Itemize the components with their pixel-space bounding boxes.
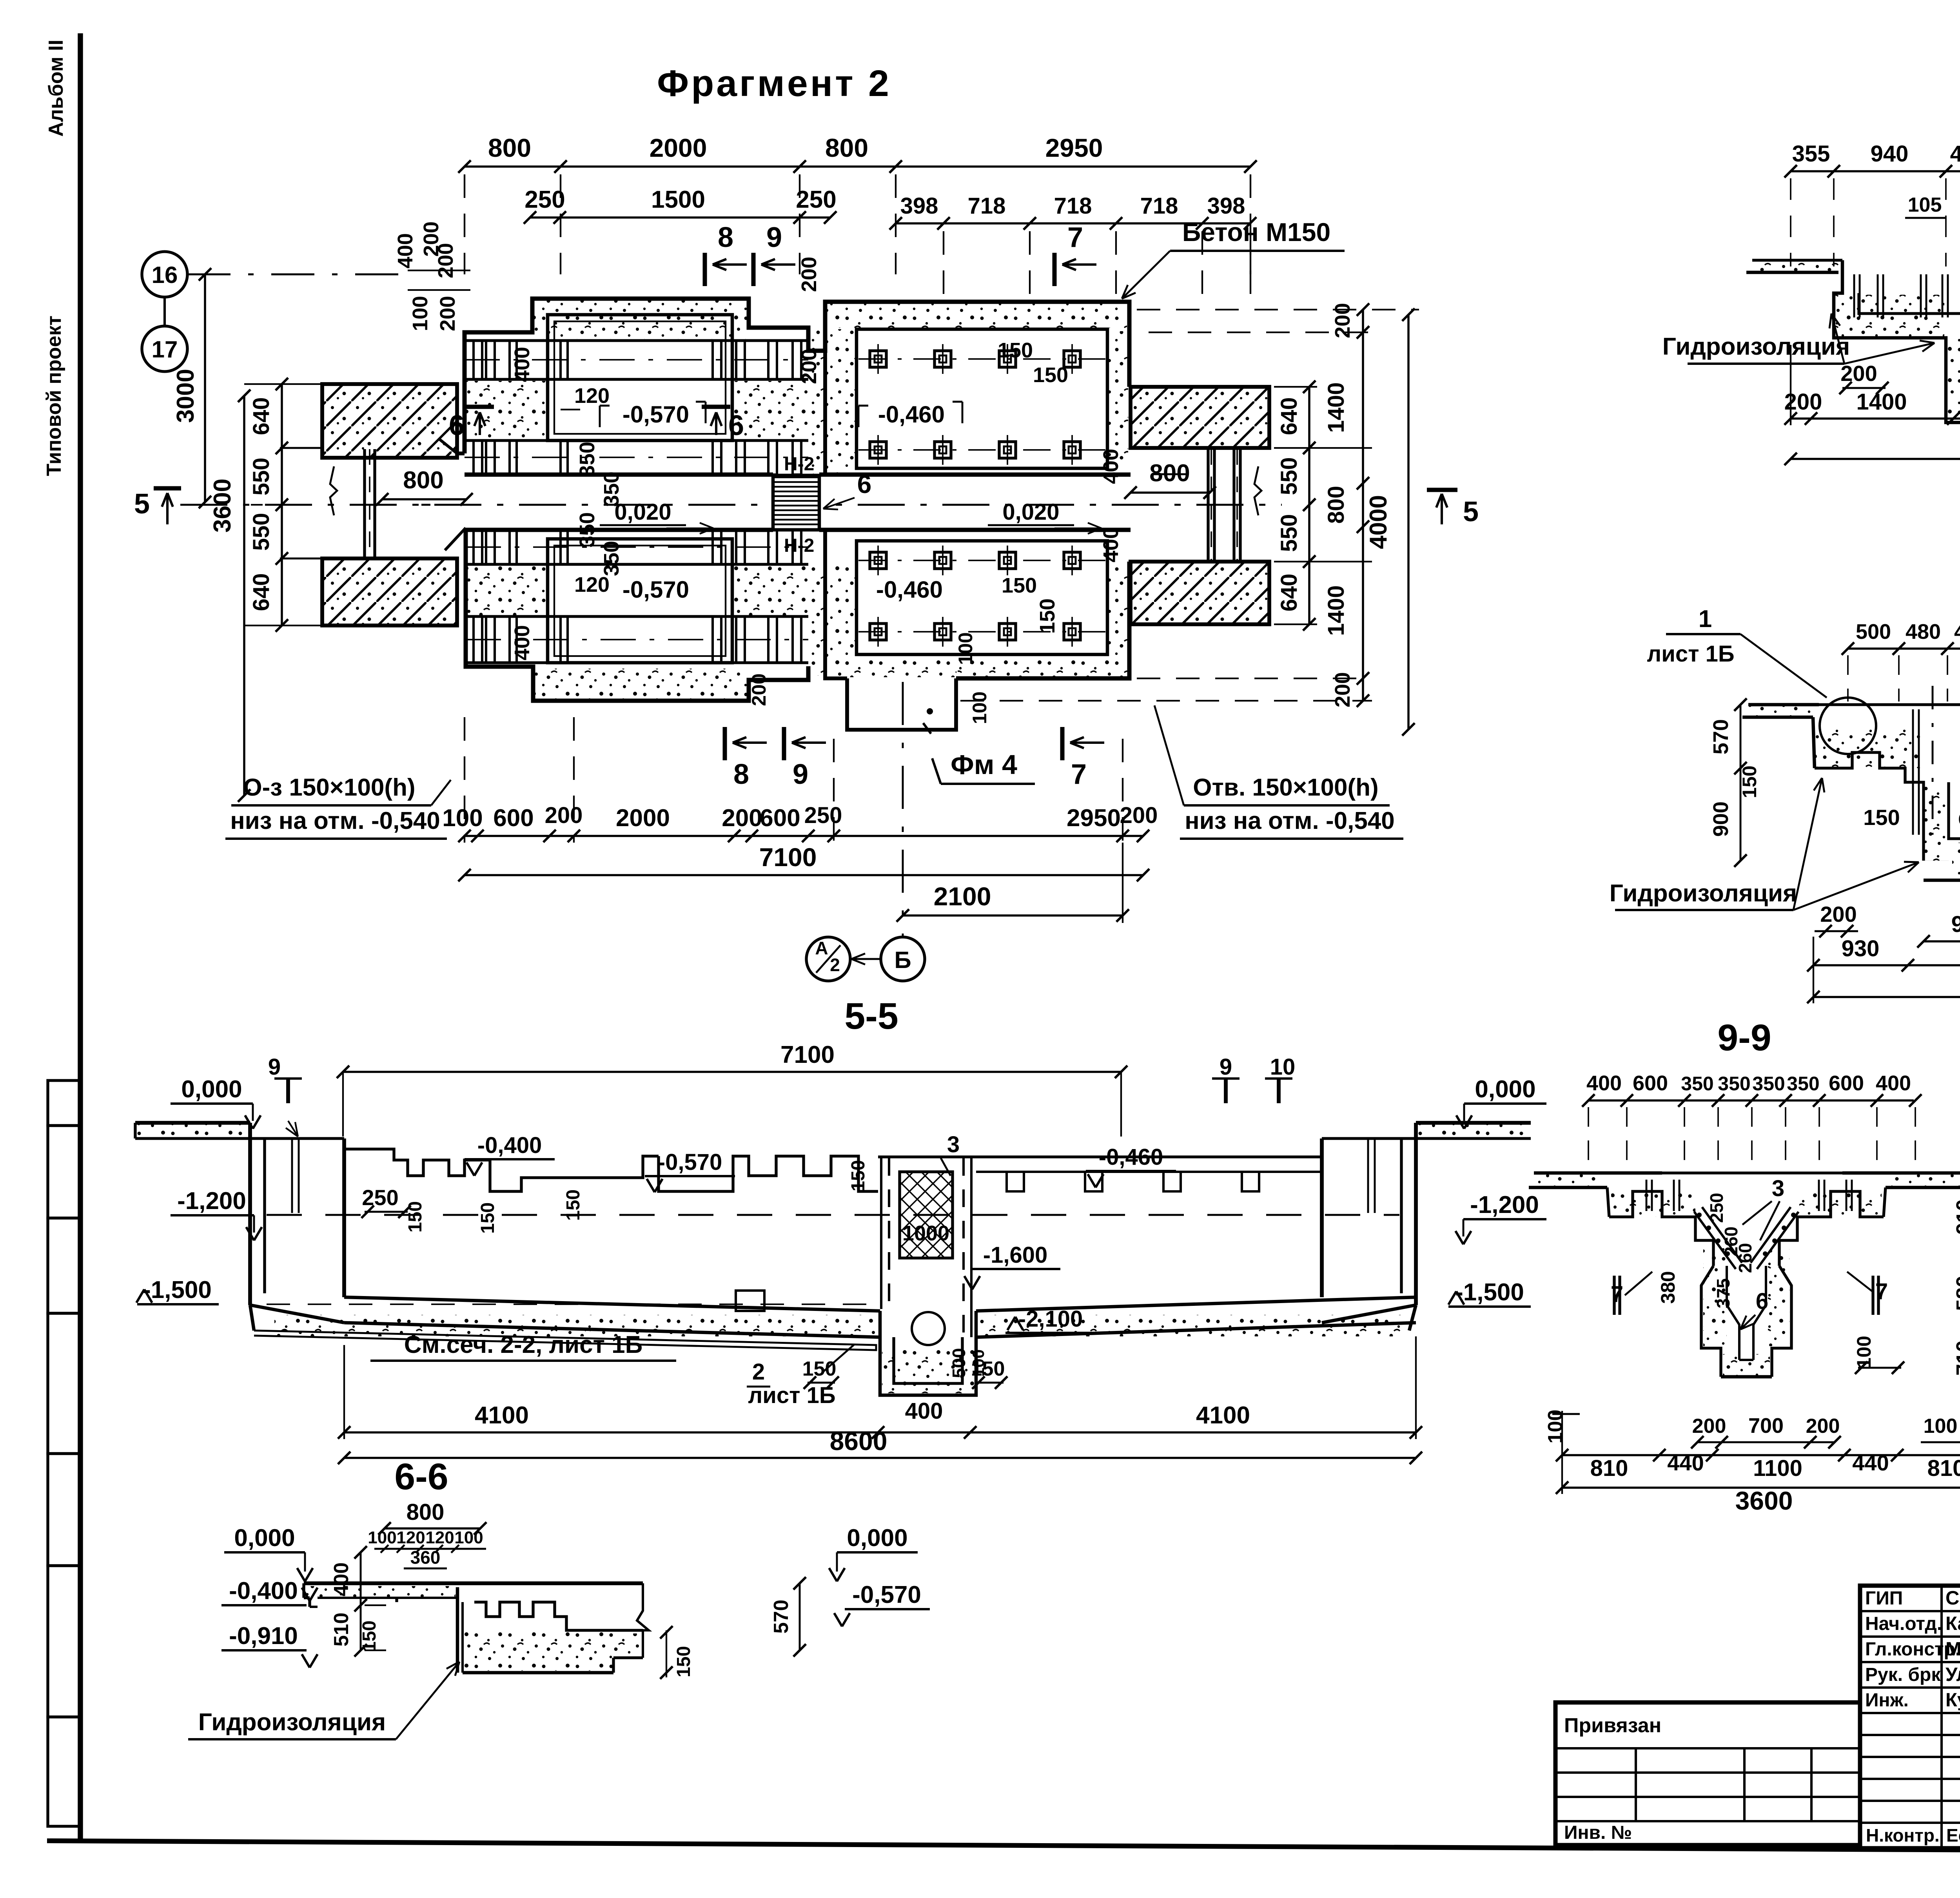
axis dash line from circle 16 [187,274,412,276]
section 6-6: hydro insulation vertical [456,1587,459,1673]
svg-text:550: 550 [249,458,274,496]
section marker 9 bottom [782,727,786,760]
axis circle 17 [142,326,187,372]
plan dim chain right inner: 640 550 550 640 [1308,387,1310,624]
svg-text:17: 17 [152,336,178,363]
svg-text:ГИП: ГИП [1865,1588,1903,1609]
svg-text:400: 400 [510,625,534,660]
section 6-6: right break edge [637,1583,649,1658]
section marker 6 left [465,405,494,409]
svg-text:6-6: 6-6 [394,1456,448,1497]
section 5-5: insulation block 1000 [900,1172,953,1258]
svg-text:100: 100 [454,1528,483,1547]
svg-text:1000: 1000 [902,1222,949,1245]
svg-text:100: 100 [442,805,483,832]
plan: embedded plates lower-right pit row1 [858,560,1105,561]
svg-text:-0,570: -0,570 [622,401,689,428]
section 6-6: bottom slab [463,1671,613,1675]
plan dim: 4000 vertical right [1407,315,1410,729]
svg-text:400: 400 [330,1563,353,1597]
svg-text:550: 550 [249,513,274,551]
plan: corridor east break mark [1254,466,1261,515]
svg-text:3: 3 [947,1132,960,1157]
svg-text:150: 150 [998,339,1033,362]
section 5-5: dim 7100 top [343,1071,1121,1073]
svg-text:900: 900 [1709,801,1733,837]
plan: corridor west break mark [330,466,337,515]
svg-text:200: 200 [436,296,459,331]
plan dim chain left: 640 550 550 640 [281,384,283,625]
svg-text:200: 200 [748,673,770,706]
svg-text:400: 400 [1099,527,1123,562]
svg-text:Привязан: Привязан [1564,1714,1661,1737]
svg-text:100: 100 [969,691,991,724]
svg-text:5: 5 [134,488,150,520]
svg-text:100: 100 [1924,1415,1958,1438]
svg-text:250: 250 [524,186,565,213]
svg-text:400: 400 [1950,141,1960,167]
section marker 8 bottom [723,727,727,760]
svg-text:640: 640 [1276,397,1302,435]
section 9-9: funnel slope rebars [1694,1212,1736,1269]
svg-text:Н.контр.: Н.контр. [1866,1825,1940,1845]
svg-text:250: 250 [362,1185,398,1210]
svg-text:Гидроизоляция: Гидроизоляция [1662,333,1850,360]
svg-text:ф200: ф200 [1958,805,1960,830]
svg-text:0,000: 0,000 [847,1525,907,1552]
section 7-7: top dim chain 355 940 400 400 940 355 [1791,170,1960,172]
section 5-5: dim 8600 [344,1457,1416,1459]
svg-text:150: 150 [1739,765,1760,798]
section 9-9: speckles [1611,1193,1695,1217]
section marker 8 top [703,253,707,286]
plan: lower-right block outer outline [825,666,847,678]
sheet frame: bottom border line [47,1841,1960,1854]
svg-text:105: 105 [1908,194,1942,216]
plan dim chain right outer: 200 1400 800 1400 200 [1362,310,1364,701]
section 9-9: bottom small chain 200 700 200 [1697,1441,1835,1443]
svg-text:4000: 4000 [1365,495,1392,549]
svg-text:7100: 7100 [780,1041,835,1068]
plan: ladder (стремянка Н-2) in corridor [773,475,819,530]
svg-text:8: 8 [733,759,749,790]
section marker 9 top [751,253,756,286]
section 6-6: dim 800 [385,1527,480,1530]
svg-text:7: 7 [1067,222,1083,253]
svg-text:-2,100: -2,100 [1018,1306,1083,1332]
svg-text:120: 120 [425,1528,454,1547]
svg-text:200: 200 [1331,672,1354,707]
section 5-5: left floor slab at 0,000 [135,1121,250,1125]
svg-text:Типовой проект: Типовой проект [43,315,65,476]
svg-text:1100: 1100 [1753,1456,1802,1481]
svg-text:1400: 1400 [1323,585,1349,636]
section 9-9: body outline [1609,1191,1713,1266]
section 8-8: detail circle on slab end [1820,698,1876,754]
plan: lower-left hatched wing (existing foundation) [322,558,457,625]
svg-text:2000: 2000 [650,133,707,162]
svg-text:8: 8 [718,222,733,253]
section 6-6: slab drawing [304,1581,643,1585]
section 5-5: central pit wall verticals [880,1158,882,1309]
svg-text:1: 1 [1699,605,1712,633]
svg-text:350: 350 [575,512,599,547]
svg-text:400: 400 [1586,1071,1622,1095]
section marker 6 inside pit [702,405,730,409]
svg-text:3600: 3600 [209,479,236,533]
svg-text:200: 200 [797,257,821,292]
svg-text:низ на отм. -0,540: низ на отм. -0,540 [230,807,440,834]
svg-text:Инв. №: Инв. № [1564,1822,1632,1843]
plan: niches row1 lower-left block [474,530,482,564]
svg-text:Нач.отд.: Нач.отд. [1865,1613,1942,1634]
svg-text:-1,500: -1,500 [1455,1279,1524,1306]
svg-text:3600: 3600 [1735,1486,1793,1515]
svg-text:570: 570 [770,1600,793,1634]
svg-text:0,020: 0,020 [1002,499,1059,525]
svg-text:1500: 1500 [651,186,705,213]
svg-text:1400: 1400 [1856,389,1907,415]
axis circle А/2 [806,937,850,981]
plan: niche axis dash line row2 [465,457,808,458]
svg-text:9: 9 [766,222,782,253]
svg-text:9: 9 [1220,1054,1232,1080]
svg-text:5: 5 [1463,496,1479,528]
svg-text:9: 9 [793,759,808,790]
svg-text:150: 150 [848,1160,869,1191]
plan: lower-right pit inner rectangle [857,541,1107,654]
plan: corridor top edge [465,473,773,477]
svg-text:930: 930 [1842,936,1880,961]
plan dim chain 2: 250 1500 250 / 398 718 718 718 398 [530,216,830,219]
svg-text:400: 400 [905,1398,943,1424]
plan: foundation Фм4 protrusion [847,678,956,730]
plan: upper-left pit inner rectangle [548,315,732,441]
svg-text:600: 600 [493,805,534,832]
plan: lower-left pit block outer outline [466,528,808,701]
svg-text:5-5: 5-5 [844,995,898,1037]
plan dim: 2100 [903,914,1123,917]
section 5-5: markers 9 and 10 top-right [1212,1077,1240,1080]
section 5-5: marker 9 top-left [274,1077,302,1080]
section 8-8: ground line [1748,703,1819,707]
section 5-5: left wall inner verticals [291,1138,293,1213]
svg-text:718: 718 [968,193,1006,219]
svg-text:200: 200 [1692,1415,1726,1438]
svg-text:510: 510 [330,1613,353,1647]
section 5-5: right floor slab at 0,000 [1416,1121,1531,1125]
svg-text:1400: 1400 [1323,382,1349,433]
section 9-9: central channel [1727,1266,1739,1360]
svg-text:150: 150 [1033,363,1068,387]
svg-text:200: 200 [1820,902,1857,926]
svg-text:480: 480 [1906,620,1941,644]
section 8-8: dim 4400 [1813,996,1960,998]
svg-text:-1,200: -1,200 [177,1187,246,1215]
svg-text:2100: 2100 [934,882,991,911]
section 7-7: trench outline [1834,260,1960,437]
svg-text:800: 800 [407,1499,445,1525]
svg-text:16: 16 [152,262,178,288]
plan: 200 dim top-right extension [1250,231,1251,304]
svg-text:400: 400 [394,233,417,268]
section 5-5: top profile right part (-0,460 floor) [878,1155,1322,1158]
section 5-5: dashed -1,200 line across [267,1214,1399,1216]
plan: right wing joint lines [1207,449,1209,560]
plan: upper-right pit inner rectangle [857,329,1107,468]
svg-text:350: 350 [600,541,623,576]
section 7-7: dim 4000 [1791,458,1960,460]
plan: lower-right block left wall [823,530,827,666]
section 9-9: dim 3600 [1562,1486,1960,1489]
svg-text:398: 398 [900,193,938,219]
svg-text:-0,400: -0,400 [477,1133,542,1158]
svg-text:2: 2 [830,955,840,975]
svg-text:0,000: 0,000 [1475,1076,1535,1103]
section 8-8: wall speckles [1816,729,1922,768]
svg-text:800: 800 [1149,460,1190,487]
svg-text:10: 10 [1270,1054,1296,1080]
title block: left attachment table [1555,1702,1860,1845]
svg-text:200: 200 [797,349,821,384]
svg-text:-0,570: -0,570 [622,576,689,603]
svg-text:9: 9 [268,1054,281,1080]
svg-text:250: 250 [1706,1193,1727,1223]
plan: upper-right block wall band [823,328,827,475]
section 5-5: floor slab speckle band [254,1331,876,1350]
section 6-6: teeth profile [474,1602,643,1630]
svg-text:Гидроизоляция: Гидроизоляция [1610,880,1797,907]
svg-text:500: 500 [949,1348,969,1378]
plan dim: 3000 vertical [204,274,206,502]
section 7-7: ground slabs left and right [1752,259,1842,261]
title block: signature table frame [1860,1586,1960,1848]
plan: lower-left chamfer wing-to-block [445,528,466,550]
plan dim: 800 corridor right [1131,491,1210,494]
section 5-5: central deep pit [880,1311,976,1395]
plan: corridor west extension lines [280,447,322,449]
svg-text:200: 200 [1806,1415,1840,1438]
svg-text:600: 600 [1633,1071,1668,1095]
section marker 7 bottom [1060,727,1065,760]
svg-text:480: 480 [1954,620,1960,644]
plan: niches row 2 upper-left block [474,441,482,475]
svg-text:640: 640 [249,573,274,611]
svg-text:Альбом II: Альбом II [45,40,67,137]
svg-text:600: 600 [760,805,800,832]
section marker 5 left [154,486,181,491]
svg-text:360: 360 [410,1547,441,1568]
svg-text:-0,400: -0,400 [229,1577,298,1604]
svg-text:150: 150 [477,1202,498,1234]
plan: centerline of inspection trench [180,504,1282,506]
svg-text:200: 200 [1840,361,1877,386]
svg-text:250: 250 [804,803,842,828]
svg-text:718: 718 [1054,193,1092,219]
svg-text:лист 1Б: лист 1Б [748,1383,835,1408]
section 9-9: chain 810 440 1100 440 810 [1562,1454,1960,1456]
section 5-5: right wall inner verticals [1367,1138,1369,1213]
svg-text:350: 350 [1787,1073,1819,1095]
svg-text:Отв. 150×100(h): Отв. 150×100(h) [1193,774,1378,801]
section 8-8: left vertical dims 570 150 900 [1740,705,1742,861]
left margin registration boxes [48,1080,80,1126]
svg-text:260: 260 [1735,1243,1755,1273]
section 8-8: pipe dash verticals ф200 [1932,686,1934,835]
plan: vertical axis dash-dot to circle Б [902,682,904,937]
section 7-7: wall speckles [1835,295,1944,337]
plan dim: 800 corridor left [382,498,466,500]
svg-text:Фм 4: Фм 4 [951,749,1017,780]
svg-text:Б: Б [894,947,911,973]
svg-text:400: 400 [510,347,534,382]
plan dim: 7100 [465,874,1143,876]
svg-text:580: 580 [1952,1276,1960,1311]
section 6-6: vertical dims left (400 510 150) [360,1552,362,1650]
axis circle Б [881,937,925,981]
plan: lower-left block inner ledges [466,563,808,566]
svg-text:120: 120 [574,384,610,408]
plan: wall concrete speckle fills [534,300,748,339]
svg-text:2950: 2950 [1067,805,1121,832]
section 8-8: bottom slab [1924,879,1960,882]
plan: lower-right hatched wing [1131,562,1269,624]
svg-text:800: 800 [403,467,443,494]
svg-text:6: 6 [449,410,465,441]
svg-text:440: 440 [1667,1450,1704,1475]
section 6-6: vertical dims right (570 150) [799,1583,801,1650]
svg-text:200: 200 [722,805,762,832]
plan: niches row 1 upper-left block [474,341,482,379]
axis circle 16 [142,252,187,297]
svg-text:350: 350 [1681,1073,1713,1095]
svg-text:-0,460: -0,460 [876,576,943,603]
plan dim: 3600 vertical [243,396,245,796]
svg-text:Ульянова: Ульянова [1945,1664,1960,1685]
plan: right extension dash lines [1137,309,1419,310]
svg-text:-1,600: -1,600 [983,1242,1047,1268]
svg-text:Катков: Катков [1945,1613,1960,1634]
section 9-9: chamfer walls [1701,1266,1721,1377]
svg-text:А: А [815,938,828,958]
svg-text:0,000: 0,000 [181,1076,242,1103]
section 9-9: top dim chain 400 600 350 350 350 350 600 400 [1588,1099,1914,1102]
plan: upper-left block inner horizontal ledges [465,339,808,342]
svg-text:398: 398 [1207,193,1245,219]
plan: niche axis dash line row1 [465,359,808,361]
section 8-8: top dim chain 500 480 480 350 350 480 480 500 [1848,647,1960,650]
section 8-8: left slab end [1742,716,1813,719]
svg-text:700: 700 [1748,1414,1784,1438]
section 7-7: trench inner lines [1859,293,1960,314]
section 9-9: left slab [1529,1186,1607,1189]
section 7-7: rebar pairs [1853,274,1855,317]
section 9-9: right slab [1886,1186,1960,1189]
svg-text:7: 7 [1071,759,1087,790]
svg-text:Бетон М150: Бетон М150 [1182,218,1330,247]
svg-text:7: 7 [1611,1282,1623,1307]
plan: embedded plates upper-right pit row2 [858,449,1105,451]
plan: upper-right hatched wing [1131,387,1269,448]
svg-text:350: 350 [600,471,623,507]
svg-text:Рук. брк: Рук. брк [1865,1664,1941,1685]
section marker 7 top [1053,253,1057,286]
section 7-7: bottom chain 200 1400 800 1400 200 [1791,417,1960,420]
svg-text:810: 810 [1590,1456,1628,1481]
svg-text:0,000: 0,000 [234,1525,295,1552]
svg-text:810: 810 [1927,1456,1960,1481]
svg-text:710: 710 [1952,1340,1960,1376]
svg-text:См.сеч. 2-2, лист 1Б: См.сеч. 2-2, лист 1Б [404,1331,642,1358]
svg-text:6: 6 [857,470,872,499]
svg-text:200: 200 [1120,803,1158,828]
svg-text:200: 200 [434,243,457,278]
svg-text:Фрагмент 2: Фрагмент 2 [657,63,891,104]
plan: corridor bottom edge [466,528,773,532]
svg-text:910: 910 [1952,1199,1960,1235]
svg-text:Морозова: Морозова [1945,1639,1960,1660]
svg-text:380: 380 [1657,1271,1679,1303]
plan: left wing joint lines [363,449,366,557]
svg-text:2950: 2950 [1045,133,1103,162]
svg-text:7100: 7100 [759,843,817,872]
svg-text:120: 120 [396,1528,425,1547]
svg-text:200: 200 [545,803,583,828]
svg-text:9-9: 9-9 [1717,1017,1771,1059]
plan: upper-right block right edge to wing [1127,302,1132,387]
svg-text:150: 150 [1036,598,1059,634]
svg-text:-0,570: -0,570 [852,1581,921,1608]
svg-text:800: 800 [825,133,868,162]
svg-text:800: 800 [488,133,531,162]
section 5-5: top profile teeth center part [659,1156,878,1191]
svg-text:100: 100 [955,632,976,665]
svg-text:-0,910: -0,910 [229,1622,298,1650]
svg-text:100: 100 [408,296,432,331]
section 5-5: right wall [1414,1123,1418,1305]
svg-text:150: 150 [1863,805,1900,830]
svg-text:-1,200: -1,200 [1470,1191,1539,1218]
svg-text:350: 350 [1718,1073,1750,1095]
section marker 5 right [1427,488,1457,492]
svg-text:350: 350 [575,442,599,477]
svg-text:лист 1Б: лист 1Б [1647,641,1734,667]
section 5-5: sloping floor lines [344,1297,880,1311]
section 9-9: slope dots [1697,1213,1702,1217]
svg-text:100: 100 [368,1528,396,1547]
svg-text:350: 350 [1752,1073,1785,1095]
section 5-5: small sump box in floor [736,1291,764,1311]
svg-text:Есина: Есина [1946,1825,1960,1845]
svg-text:718: 718 [1140,193,1178,219]
svg-text:Кудряшова: Кудряшова [1945,1690,1960,1711]
plan dim chain bottom: 100 600 200 2000 200 600 250 2950 200 [465,835,1143,837]
svg-text:-0,460: -0,460 [1099,1144,1163,1170]
section 9-9: ground surface [1534,1171,1662,1175]
svg-text:Н-2: Н-2 [784,535,814,556]
plan: embedded plates lower-right pit row2 [858,631,1105,633]
svg-text:Инж.: Инж. [1865,1690,1909,1711]
section 8-8: chain 930 2540 930 [1813,964,1960,966]
section 8-8: trench body outline [1815,752,1924,861]
svg-text:150: 150 [359,1621,380,1652]
section 5-5: bottom dim chain 4100 400 4100 [344,1431,1416,1434]
section 8-8: neck walls [1949,782,1960,861]
svg-text:Гидроизоляция: Гидроизоляция [198,1709,386,1736]
plan: upper-left pit block outer wall outline [465,299,1129,453]
plan: upper-left hatched wing (existing foundation) [322,384,457,458]
svg-text:440: 440 [1852,1450,1889,1475]
